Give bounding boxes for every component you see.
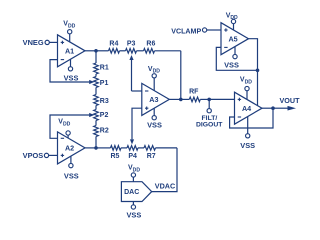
svg-text:A2: A2 [65,144,74,153]
svg-text:VDD: VDD [63,21,75,30]
svg-text:R1: R1 [100,64,109,71]
svg-text:VDAC: VDAC [155,181,175,190]
svg-text:A4: A4 [242,104,251,113]
svg-text:VSS: VSS [240,141,255,150]
svg-text:A1: A1 [65,46,74,55]
svg-text:DAC: DAC [124,189,139,196]
svg-text:A5: A5 [228,34,237,43]
svg-text:P3: P3 [127,40,136,47]
svg-text:A3: A3 [149,95,158,104]
svg-text:P1: P1 [100,80,109,87]
svg-text:R2: R2 [100,127,109,134]
svg-text:VDD: VDD [226,12,238,21]
svg-text:VDD: VDD [148,66,160,75]
svg-text:VPOS: VPOS [23,151,44,160]
svg-text:DIGOUT: DIGOUT [196,122,223,129]
svg-text:R5: R5 [111,153,120,160]
svg-text:VSS: VSS [147,121,162,130]
svg-text:VDD: VDD [58,119,70,128]
svg-text:R7: R7 [147,153,156,160]
svg-text:R3: R3 [100,98,109,105]
svg-text:RF: RF [189,89,199,96]
svg-text:R6: R6 [146,40,155,47]
svg-text:VSS: VSS [64,73,79,82]
svg-text:VOUT: VOUT [280,96,301,105]
svg-text:VCLAMP: VCLAMP [171,27,201,35]
svg-text:VDD: VDD [240,77,252,86]
svg-text:P4: P4 [128,153,137,160]
svg-text:VNEG: VNEG [23,38,44,47]
svg-text:P2: P2 [100,112,109,119]
svg-text:R4: R4 [109,40,118,47]
svg-text:VSS: VSS [224,60,239,69]
svg-text:VSS: VSS [127,211,142,220]
svg-text:VSS: VSS [64,172,79,181]
svg-text:VDD: VDD [128,165,140,174]
